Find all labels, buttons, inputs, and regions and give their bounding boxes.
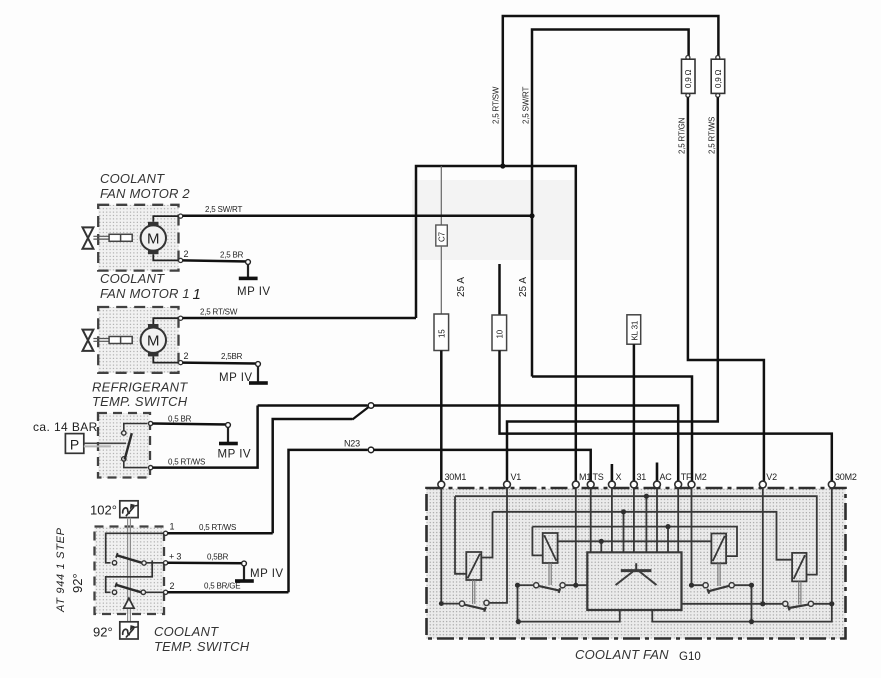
terminal V1 bbox=[504, 481, 511, 488]
wire contact K1 to V1 bbox=[489, 488, 507, 603]
svg-text:102°: 102° bbox=[90, 503, 117, 518]
svg-text:C7: C7 bbox=[438, 231, 447, 242]
lower blade bbox=[115, 583, 141, 593]
wire coil K1 left feed bbox=[455, 496, 466, 574]
wire ECU right stub to contact K4 bbox=[682, 603, 783, 605]
ground MP IV motor1 bbox=[219, 362, 268, 385]
wire 30M1 inside down bbox=[441, 488, 459, 604]
drop 541 bus to ECU bbox=[600, 541, 602, 552]
svg-text:MP IV: MP IV bbox=[218, 449, 252, 461]
wire fuse15 down to 30M1 bbox=[440, 351, 443, 485]
wire motor2 brush to terminal 2 bbox=[153, 254, 179, 260]
wire top feed 30M2 to resistor R2 top bbox=[503, 16, 719, 166]
actuator triangle bbox=[124, 598, 134, 608]
wire M1 inside down bbox=[575, 488, 577, 585]
upper blade bbox=[116, 553, 142, 563]
coolant switch pin1 inner path bbox=[106, 533, 165, 563]
connector blade bbox=[352, 407, 368, 419]
junction M1 contact K2 bbox=[573, 583, 578, 588]
contact K2 left pin bbox=[534, 583, 539, 588]
fan shaft motor 2 bbox=[93, 236, 110, 239]
coil K1 actuator bbox=[473, 580, 475, 604]
terminal V2 bbox=[759, 481, 766, 488]
terminal circles motor 2 bbox=[179, 214, 183, 218]
refrigerant switch box bbox=[98, 413, 150, 478]
relay coil K2 bbox=[543, 533, 558, 563]
junction 30M2 contact K4 bbox=[829, 601, 834, 606]
junction motor2 wire bbox=[529, 213, 534, 218]
contact K3 line right bbox=[734, 584, 751, 586]
junction bus512 drop bbox=[621, 509, 626, 514]
svg-text:2,5 RT/SW: 2,5 RT/SW bbox=[492, 86, 501, 124]
svg-text:2,5BR: 2,5BR bbox=[221, 352, 243, 361]
wire 0,5BR pin3 to ground bbox=[168, 562, 244, 565]
wire N23 to TS bbox=[374, 450, 591, 485]
upper contact right bbox=[142, 561, 146, 565]
svg-text:1: 1 bbox=[170, 522, 175, 532]
refrigerant switch blade bbox=[125, 433, 132, 459]
svg-text:0,5 BR/GE: 0,5 BR/GE bbox=[204, 582, 240, 591]
connector N23 circle bbox=[368, 447, 374, 453]
svg-text:MP IV: MP IV bbox=[219, 372, 253, 384]
motor M2 circle bbox=[141, 222, 166, 254]
wire motor2 brush to terminal 1 bbox=[153, 216, 179, 222]
svg-text:X: X bbox=[616, 472, 622, 482]
wire 0,5 BR/GE pin2 bbox=[168, 591, 289, 594]
connector C7 bbox=[436, 225, 448, 246]
link lower to pin2 bbox=[146, 591, 166, 593]
svg-text:2: 2 bbox=[184, 351, 189, 361]
svg-text:COOLANT: COOLANT bbox=[100, 271, 165, 286]
contact K2 line left bbox=[518, 584, 534, 586]
wire 0,5 RT/WS refrigerant up bbox=[153, 406, 258, 468]
svg-text:V2: V2 bbox=[766, 472, 777, 482]
coolant switch terminal circles bbox=[164, 531, 168, 594]
fan propeller motor 2 bbox=[83, 227, 94, 248]
svg-text:25 A: 25 A bbox=[456, 277, 467, 297]
junction V2 contact K4 bbox=[760, 601, 765, 606]
ground MP IV refrigerant bbox=[218, 423, 252, 461]
svg-text:2,5 RT/WS: 2,5 RT/WS bbox=[707, 117, 716, 154]
lower contact right bbox=[141, 590, 145, 594]
bus 496 to coil K4 bbox=[455, 496, 817, 574]
junction bus496 drop bbox=[644, 494, 649, 499]
terminal X bbox=[609, 481, 616, 488]
svg-text:0,9 Ω: 0,9 Ω bbox=[714, 69, 723, 88]
svg-text:2,5 SW/RT: 2,5 SW/RT bbox=[205, 205, 242, 214]
svg-text:10: 10 bbox=[495, 329, 504, 338]
junction contact K3 drop bbox=[749, 583, 754, 588]
junction bus526 drop bbox=[665, 524, 670, 529]
thermo icon box 102 bbox=[120, 501, 138, 518]
scan gray wash near C7 bbox=[412, 180, 576, 260]
drop contact K3 to bottom bus bbox=[751, 585, 753, 621]
connector KL 31 bbox=[627, 315, 641, 344]
contact K1 right pin bbox=[484, 600, 489, 605]
contact K3 left pin bbox=[703, 583, 708, 588]
wire V2 inside bbox=[762, 488, 764, 604]
svg-text:+ 3: + 3 bbox=[169, 552, 181, 562]
svg-text:V1: V1 bbox=[511, 472, 522, 482]
contact K3 blade bbox=[707, 586, 729, 594]
thermo icon box 92 bbox=[120, 622, 138, 639]
svg-text:TF: TF bbox=[681, 472, 692, 482]
resistor R1 0,9 ohm bbox=[682, 56, 696, 98]
terminal circles motor 1 bbox=[179, 316, 183, 320]
svg-text:TEMP. SWITCH: TEMP. SWITCH bbox=[92, 394, 188, 409]
upper contact left bbox=[112, 561, 116, 565]
contact K2 right pin bbox=[560, 583, 565, 588]
svg-text:2: 2 bbox=[184, 249, 189, 259]
svg-text:REFRIGERANT: REFRIGERANT bbox=[92, 380, 188, 395]
bus 512 to coil K4 left bbox=[493, 512, 793, 560]
coupling motor 2 bbox=[109, 234, 132, 241]
refrigerant switch contacts bbox=[122, 424, 148, 468]
coolant temp switch box bbox=[95, 527, 165, 615]
wire R1 bottom to V2 bbox=[688, 97, 764, 484]
wire 2,5 BR motor2 to ground bbox=[183, 260, 248, 261]
bus 526 to coil K3 right bbox=[532, 527, 737, 557]
terminal M1 bbox=[572, 481, 579, 488]
contact K1 blade bbox=[464, 604, 486, 611]
junction bottom bus left bbox=[516, 619, 521, 624]
junction bus541 drop bbox=[599, 539, 604, 544]
link to pin 3 with junction bbox=[146, 560, 165, 565]
connector node circle bbox=[368, 403, 374, 409]
terminal TS bbox=[587, 481, 594, 488]
svg-text:AT 944 1 STEP: AT 944 1 STEP bbox=[55, 527, 67, 613]
svg-text:25 A: 25 A bbox=[518, 277, 529, 297]
wire fuse10 top stub bbox=[498, 264, 501, 315]
svg-text:15: 15 bbox=[437, 329, 446, 338]
coil K4 actuator bbox=[799, 581, 801, 604]
refrigerant terminal circles bbox=[149, 421, 153, 425]
svg-text:31: 31 bbox=[637, 472, 647, 482]
terminal 30M1 bbox=[438, 481, 445, 488]
terminal 31 bbox=[631, 481, 638, 488]
wire R2 bottom to V1 bbox=[507, 97, 718, 484]
wire KL31 to terminal 31 bbox=[633, 344, 636, 484]
wire node to TF bbox=[374, 406, 678, 485]
coolant fan motor 2 box bbox=[98, 205, 178, 271]
fan shaft motor 1 bbox=[93, 339, 110, 342]
contact K2 line right to ECU bbox=[565, 584, 587, 586]
svg-text:M1: M1 bbox=[579, 472, 591, 482]
wire thin C7 to fuse 15 bbox=[440, 246, 442, 314]
contact K4 right pin bbox=[808, 601, 813, 606]
svg-text:0,5 RT/WS: 0,5 RT/WS bbox=[199, 523, 236, 532]
coil K3 actuator bbox=[718, 563, 720, 586]
svg-text:COOLANT FAN: COOLANT FAN bbox=[575, 647, 669, 662]
svg-text:92°: 92° bbox=[93, 625, 113, 640]
svg-text:2: 2 bbox=[170, 581, 175, 591]
fuse 15 bbox=[434, 314, 449, 351]
svg-text:COOLANT: COOLANT bbox=[154, 624, 219, 639]
wire coolant switch pin2 to N23 bbox=[289, 450, 368, 592]
pressure sensor P box bbox=[65, 434, 83, 454]
svg-text:G10: G10 bbox=[679, 651, 701, 663]
svg-text:2,5 RT/GN: 2,5 RT/GN bbox=[678, 117, 687, 154]
wire 30M2 inside bbox=[831, 488, 833, 604]
wire M2 feed from second line down and right bbox=[532, 377, 692, 485]
svg-text:MP IV: MP IV bbox=[237, 286, 271, 298]
drop 496 bus to ECU bbox=[645, 496, 647, 552]
svg-text:30M2: 30M2 bbox=[835, 472, 857, 482]
svg-text:FAN MOTOR 1: FAN MOTOR 1 bbox=[100, 286, 190, 301]
drop 512 bus to ECU bbox=[623, 512, 625, 553]
svg-text:0,5 RT/WS: 0,5 RT/WS bbox=[168, 458, 205, 467]
wire thin C7 branch upper bbox=[440, 166, 442, 225]
relay coil K4 bbox=[792, 553, 806, 582]
svg-text:M: M bbox=[147, 333, 160, 350]
svg-text:KL 31: KL 31 bbox=[630, 320, 639, 340]
wire 31 inside bbox=[633, 488, 635, 552]
svg-text:TS: TS bbox=[593, 472, 604, 482]
inner Z path to lower contact bbox=[106, 563, 153, 593]
svg-text:P: P bbox=[70, 437, 79, 453]
svg-text:2,5 BR: 2,5 BR bbox=[220, 251, 244, 260]
coolant fan motor 1 box bbox=[98, 307, 178, 373]
svg-text:0,9 Ω: 0,9 Ω bbox=[684, 69, 693, 88]
contact K1 left pin bbox=[459, 601, 464, 606]
junction contact K2 drop bbox=[515, 583, 520, 588]
wire motor1 brush to terminal 1 bbox=[153, 318, 179, 324]
wire coil K1 right exit bbox=[481, 512, 492, 558]
svg-text:M2: M2 bbox=[695, 472, 707, 482]
wire 0,5 BR to ground bbox=[153, 424, 228, 425]
wire second top line to resistor R1 top bbox=[532, 30, 689, 377]
svg-text:92°: 92° bbox=[70, 573, 85, 593]
fuse 10 bbox=[492, 315, 507, 351]
drop 526 bus to ECU bbox=[667, 527, 669, 553]
junction top feed on 166 line bbox=[500, 163, 505, 168]
ECU fan symbol bbox=[616, 563, 657, 585]
ECU control box bbox=[587, 552, 681, 610]
wire 2,5 SW/RT motor2 to vertical bbox=[183, 215, 532, 218]
terminal AC bbox=[654, 481, 661, 488]
contact K3 right pin bbox=[729, 583, 734, 588]
wire motor1 net horizontal to M1 bbox=[416, 166, 576, 485]
junction 30M1 corner bbox=[439, 601, 444, 606]
wire TF inside bbox=[677, 488, 679, 552]
resistor R2 0,9 ohm bbox=[711, 56, 725, 98]
wire to connector node bbox=[258, 404, 368, 407]
svg-text:30M1: 30M1 bbox=[445, 472, 467, 482]
svg-text:2,5 RT/SW: 2,5 RT/SW bbox=[200, 308, 238, 317]
ground MP IV motor2 bbox=[237, 260, 271, 298]
svg-text:ca. 14 BAR: ca. 14 BAR bbox=[33, 420, 98, 434]
wire X inside bbox=[611, 488, 613, 552]
wire 2,5BR motor1 to ground bbox=[183, 363, 258, 364]
fan propeller motor 1 bbox=[83, 330, 94, 351]
svg-text:AC: AC bbox=[660, 472, 673, 482]
bottom bus left segment bbox=[518, 610, 620, 622]
terminal TF bbox=[675, 481, 682, 488]
wire 2,5 RT/SW motor1 to 166 net bbox=[183, 317, 416, 320]
wire fuse10 to 30M2 bbox=[500, 351, 832, 485]
wire motor1 brush to terminal 2 bbox=[153, 356, 179, 362]
relay coil K1 bbox=[466, 552, 481, 580]
terminal stubs X and AC bbox=[612, 463, 657, 482]
svg-text:COOLANT: COOLANT bbox=[100, 171, 165, 186]
svg-text:FAN MOTOR 2: FAN MOTOR 2 bbox=[100, 186, 190, 201]
coil K2 left bracket bbox=[532, 527, 542, 556]
thermo actuator shaft bbox=[128, 518, 131, 622]
svg-text:MP IV: MP IV bbox=[250, 568, 284, 580]
terminal M2 bbox=[688, 481, 695, 488]
lower contact left bbox=[112, 590, 116, 594]
wire TS inside bbox=[590, 488, 592, 552]
svg-text:N23: N23 bbox=[344, 439, 360, 449]
contact K4 left pin bbox=[783, 601, 788, 606]
control unit box G10 bbox=[427, 488, 846, 639]
drop contact K2 to bottom bus bbox=[517, 585, 519, 621]
svg-text:0,5BR: 0,5BR bbox=[207, 553, 229, 562]
sensor shaft bbox=[84, 443, 126, 446]
ground MP IV coolant bbox=[235, 561, 284, 583]
bottom bus right segment bbox=[652, 604, 832, 622]
wire AC inside bbox=[656, 488, 658, 552]
wire M2 inside down bbox=[692, 488, 703, 585]
svg-text:TEMP. SWITCH: TEMP. SWITCH bbox=[154, 639, 250, 654]
svg-text:1: 1 bbox=[193, 286, 201, 303]
contact K4 blade bbox=[788, 605, 808, 611]
coupling motor 1 bbox=[109, 337, 132, 344]
bus 541 coil K2 right to coil K3 left bbox=[558, 540, 712, 542]
wire coolant switch pin1 riser bbox=[273, 419, 353, 533]
motor M1 circle bbox=[141, 324, 166, 356]
pin labels 1 3 2 bbox=[169, 522, 181, 592]
svg-text:0,5 BR: 0,5 BR bbox=[168, 415, 192, 424]
contact K4 line right bbox=[814, 603, 832, 605]
relay coil K3 bbox=[711, 534, 726, 564]
junction M2 contact K3 bbox=[689, 583, 694, 588]
svg-text:M: M bbox=[147, 230, 160, 247]
coil K2 actuator bbox=[549, 563, 551, 585]
terminal 30M2 bbox=[828, 481, 835, 488]
contact K2 blade bbox=[538, 586, 560, 593]
junction bottom bus right bbox=[749, 619, 754, 624]
wire 0,5 RT/WS coolant pin1 bbox=[168, 532, 273, 535]
svg-text:2,5 SW/RT: 2,5 SW/RT bbox=[522, 87, 531, 124]
